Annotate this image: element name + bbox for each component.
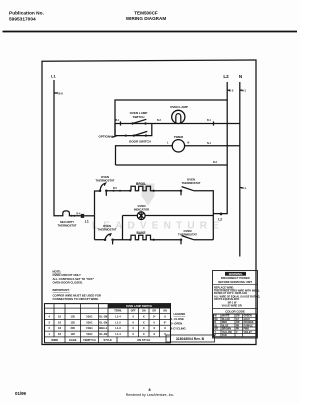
svg-text:VALUE WIRE OR.: VALUE WIRE OR. (222, 304, 243, 307)
svg-text:WHITE: WHITE (222, 316, 230, 318)
svg-text:18: 18 (58, 320, 61, 324)
svg-text:0*: 0* (164, 320, 166, 324)
warning box (213, 271, 261, 339)
svg-text:PR: PR (236, 325, 240, 327)
svg-text:WARNING: WARNING (229, 272, 243, 276)
svg-text:GN: GN (236, 316, 240, 318)
svg-text:X: X (143, 332, 145, 336)
svg-text:B-5: B-5 (113, 187, 118, 190)
svg-text:B-1: B-1 (116, 119, 121, 122)
svg-text:ON STYLE: ON STYLE (137, 338, 150, 342)
svg-text:0 -OPEN: 0 -OPEN (171, 321, 182, 325)
svg-text:3: 3 (48, 320, 50, 324)
svg-text:THERMOSTAT: THERMOSTAT (181, 181, 200, 185)
svg-text:L: L (167, 142, 169, 145)
svg-text:ON: ON (142, 310, 146, 313)
door switch (optional) (115, 124, 152, 144)
svg-text:THERMOSTAT: THERMOSTAT (178, 233, 197, 237)
bake element (131, 235, 153, 239)
svg-text:BK: BK (215, 319, 219, 321)
svg-text:N-1: N-1 (207, 142, 212, 145)
terminal tick B-1 before N (213, 121, 215, 125)
svg-text:GY: GY (236, 319, 240, 321)
terminal tick B-6 on L1 bus (54, 92, 58, 94)
svg-text:BR: BR (215, 329, 219, 331)
oven lamp switch (116, 111, 162, 126)
watermark logo (142, 184, 155, 206)
svg-text:INDICATOR: INDICATOR (134, 207, 149, 211)
svg-text:53A1: 53A1 (86, 315, 93, 319)
wiring table footer row (51, 338, 150, 342)
svg-text:ORANGE: ORANGE (244, 321, 255, 324)
wire N bus (239, 82, 241, 257)
svg-text:WIRING DIAGRAM: WIRING DIAGRAM (126, 16, 166, 21)
svg-text:L1: L1 (85, 219, 89, 223)
svg-text:0: 0 (132, 326, 134, 330)
svg-text:L1-2: L1-2 (115, 320, 121, 324)
svg-text:OVEN DOOR CLOSED.: OVEN DOOR CLOSED. (53, 280, 84, 284)
svg-text:53A1: 53A1 (86, 320, 93, 324)
svg-text:GAGE: GAGE (69, 338, 77, 342)
header rule (3, 31, 298, 33)
wire L1 stub into oven loop (84, 215, 94, 217)
svg-text:BEFORE SERVICING UNIT: BEFORE SERVICING UNIT (218, 280, 252, 284)
svg-text:5995317004: 5995317004 (9, 17, 36, 23)
timer box left edge (116, 146, 173, 165)
svg-text:0: 0 (132, 315, 134, 319)
wire bottom rail to right vertical (194, 239, 214, 241)
svg-text:TEMP°C/A: TEMP°C/A (83, 338, 96, 342)
wiring table (bottom left) (45, 304, 171, 343)
tick N-1 mid on N (240, 187, 243, 189)
svg-text:TEM500CF: TEM500CF (134, 10, 158, 15)
oven thermostat contact (bake, bottom-left) (97, 224, 116, 245)
svg-text:CONNECTIONS TO CIRCUIT WIRE.: CONNECTIONS TO CIRCUIT WIRE. (53, 297, 99, 301)
oven thermostat contact (broil, top-left) (95, 175, 114, 196)
svg-text:0: 0 (132, 332, 134, 336)
svg-text:0: 0 (132, 320, 134, 324)
tick B-2 on L2 (227, 89, 230, 91)
oven indicator branch riser (122, 216, 124, 240)
svg-text:GREEN: GREEN (244, 316, 253, 318)
svg-text:STYLE: STYLE (104, 338, 113, 342)
svg-text:0: 0 (153, 320, 155, 324)
svg-text:B-2: B-2 (229, 89, 234, 93)
svg-text:IMPORTANT:: IMPORTANT: (53, 288, 70, 292)
svg-text:TERM.: TERM. (114, 310, 122, 313)
junction dot L2 (220, 213, 223, 216)
wire oven lamp rail (115, 123, 240, 125)
svg-text:YELLOW: YELLOW (222, 332, 233, 334)
svg-text:OL-1N: OL-1N (99, 332, 107, 336)
svg-text:OFF: OFF (131, 310, 136, 313)
svg-text:BAKE: BAKE (136, 231, 145, 235)
svg-text:200: 200 (71, 326, 76, 330)
svg-text:L1-4: L1-4 (115, 315, 121, 319)
svg-text:WIRE: WIRE (51, 338, 58, 342)
wire top rail corner down (194, 191, 214, 240)
svg-text:2: 2 (48, 326, 50, 330)
svg-text:TAN: TAN (222, 334, 227, 337)
wire top rail right (153, 190, 181, 192)
svg-text:COLOR CODE: COLOR CODE (225, 309, 245, 313)
svg-text:01/99: 01/99 (15, 391, 27, 396)
wire top rail left (107, 190, 131, 192)
svg-text:DOOR SWITCH: DOOR SWITCH (129, 139, 151, 143)
svg-text:1: 1 (48, 332, 50, 336)
svg-text:X: X (164, 326, 166, 330)
svg-text:X: X (143, 320, 145, 324)
wire bottom rail right (153, 239, 181, 241)
svg-text:18: 18 (58, 326, 61, 330)
svg-text:Ø-CYCLING: Ø-CYCLING (170, 326, 186, 330)
wire timer feed rail to L2 (116, 164, 228, 166)
oven indicator lamp (134, 204, 149, 220)
svg-text:0*: 0* (153, 315, 155, 319)
wire L1 supply bus (54, 80, 59, 216)
svg-text:OL-1M: OL-1M (99, 315, 107, 319)
svg-text:BLUE: BLUE (222, 325, 229, 327)
svg-text:PINK: PINK (244, 329, 250, 331)
svg-text:X: X (164, 315, 166, 319)
svg-text:BROWN: BROWN (222, 329, 231, 331)
svg-text:53A1: 53A1 (86, 332, 93, 336)
legend (170, 312, 186, 330)
svg-text:B-6: B-6 (59, 92, 64, 96)
svg-text:Rendered by LeadVenture, Inc.: Rendered by LeadVenture, Inc. (126, 393, 174, 397)
svg-text:N: N (188, 142, 190, 145)
svg-text:VIOLET: VIOLET (244, 332, 253, 334)
svg-text:X: X (143, 315, 145, 319)
wiring table header band (108, 304, 171, 309)
svg-text:THERMOSTAT: THERMOSTAT (97, 228, 116, 232)
wire timer to N (185, 145, 240, 147)
svg-text:X: X (153, 332, 155, 336)
tick N-1 on N (240, 89, 243, 91)
terminal plug L1 (81, 214, 84, 218)
wire L2 bus (213, 82, 227, 214)
svg-text:OL-1N: OL-1N (99, 320, 107, 324)
svg-text:B-1: B-1 (207, 119, 212, 122)
part number box (166, 335, 215, 342)
wire bottom rail to bake element (113, 239, 131, 241)
svg-text:LEGEND: LEGEND (174, 312, 186, 316)
svg-text:B-4: B-4 (77, 212, 82, 215)
svg-text:N-1: N-1 (242, 186, 247, 190)
svg-text:RED: RED (222, 322, 227, 324)
svg-text:N-1: N-1 (242, 89, 247, 93)
svg-text:ON: ON (163, 310, 167, 313)
svg-text:18: 18 (58, 332, 61, 336)
wire bottom rail left (95, 239, 106, 241)
svg-text:BBA-1: BBA-1 (99, 326, 107, 330)
oven thermostat contact (broil, top-right) (180, 178, 201, 196)
svg-text:Publication No.: Publication No. (9, 11, 44, 17)
svg-text:OVEN LAMP: OVEN LAMP (170, 105, 188, 109)
svg-text:L2: L2 (218, 218, 222, 222)
wire indicator rail (123, 215, 214, 217)
svg-text:BLACK: BLACK (222, 318, 230, 321)
note block (53, 270, 101, 301)
svg-text:TIMER: TIMER (174, 135, 184, 139)
svg-text:L1-3: L1-3 (115, 326, 121, 330)
svg-text:8: 8 (148, 388, 150, 392)
security thermostat (59, 211, 82, 216)
oven thermostat contact (bake, bottom-right) (178, 229, 197, 244)
svg-text:OVEN LAMP SWITCH: OVEN LAMP SWITCH (126, 304, 152, 308)
broil element (131, 186, 153, 190)
timer (167, 135, 190, 152)
svg-text:N: N (239, 74, 243, 79)
svg-text:THERMOSTAT: THERMOSTAT (57, 224, 76, 228)
diagram frame (42, 60, 256, 345)
svg-text:X: X (143, 326, 145, 330)
svg-text:122: 122 (71, 332, 76, 336)
svg-text:SWITCH: SWITCH (133, 115, 145, 119)
svg-text:L1-4: L1-4 (115, 332, 121, 336)
svg-text:L2: L2 (223, 74, 229, 79)
svg-text:B-3: B-3 (213, 161, 218, 164)
svg-text:PURPLE: PURPLE (244, 325, 254, 327)
svg-text:318048004 Rev. B: 318048004 Rev. B (176, 337, 205, 341)
color code table (214, 314, 257, 337)
svg-text:X: X (153, 326, 155, 330)
svg-text:B-2: B-2 (157, 119, 162, 122)
svg-text:125: 125 (71, 320, 76, 324)
oven loop left vertical (95, 191, 100, 216)
wire lamp box top edge to L2 (115, 100, 227, 136)
svg-text:PK: PK (236, 329, 240, 331)
svg-text:OR: OR (236, 322, 240, 324)
svg-text:DR: DR (152, 310, 156, 313)
svg-text:GRAY: GRAY (244, 318, 251, 321)
svg-text:THERMOSTAT: THERMOSTAT (95, 179, 114, 183)
svg-text:F1B1: F1B1 (86, 326, 93, 330)
svg-text:18: 18 (58, 315, 61, 319)
svg-text:DISCONNECT POWER: DISCONNECT POWER (221, 276, 250, 280)
svg-text:1 -CLOSE: 1 -CLOSE (171, 317, 184, 321)
wiring table rows (48, 315, 166, 337)
svg-text:BROIL: BROIL (136, 182, 146, 186)
svg-text:4: 4 (48, 315, 50, 319)
svg-text:L1: L1 (51, 74, 56, 79)
oven lamp (170, 105, 188, 124)
svg-text:135: 135 (71, 315, 76, 319)
